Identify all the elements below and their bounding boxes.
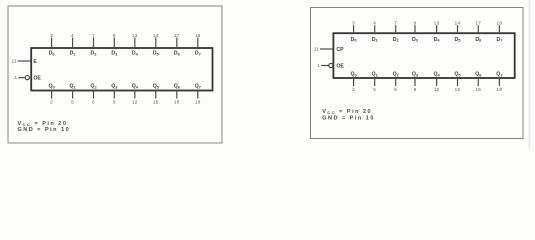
active-low bubble on OE (U2)	[329, 63, 333, 67]
wire: pin 2 stub to Q0 (U2)	[350, 72, 356, 93]
svg-text:Q2: Q2	[393, 72, 400, 78]
wire: pin 3 stub to D0	[49, 33, 55, 57]
svg-text:D1: D1	[372, 37, 379, 43]
svg-text:18: 18	[497, 21, 503, 26]
svg-text:D6: D6	[174, 51, 181, 57]
wire: pin 18 stub to D7	[195, 33, 201, 57]
svg-text:8: 8	[414, 21, 417, 26]
svg-text:5: 5	[71, 99, 74, 104]
svg-text:13: 13	[132, 33, 138, 38]
wire: pin 16 stub to Q6 (U2)	[475, 72, 482, 93]
wire: pin 1 to OE input (U2)	[317, 63, 344, 69]
svg-text:D5: D5	[153, 51, 160, 57]
wire: pin 9 stub to Q3 (U2)	[412, 72, 419, 93]
wire: pin 5 stub to Q1	[69, 83, 76, 104]
wire: pin 6 stub to Q2	[90, 83, 97, 104]
wire: pin 13 stub to D4	[132, 33, 139, 57]
svg-text:Q7: Q7	[195, 83, 201, 89]
svg-text:Q6: Q6	[475, 72, 482, 78]
svg-text:15: 15	[455, 87, 461, 92]
svg-text:Q4: Q4	[132, 83, 139, 89]
svg-text:12: 12	[132, 99, 138, 104]
wire: pin 5 stub to Q1 (U2)	[372, 72, 379, 93]
wire: pin 19 stub to Q7 (U2)	[496, 72, 502, 93]
svg-text:2: 2	[50, 99, 53, 104]
svg-text:D4: D4	[434, 37, 441, 43]
wire: pin 2 stub to Q0	[48, 83, 54, 104]
svg-text:13: 13	[434, 21, 440, 26]
svg-text:Q4: Q4	[433, 72, 440, 78]
svg-text:9: 9	[113, 99, 116, 104]
wire: pin 7 stub to D2	[91, 33, 98, 57]
svg-text:D2: D2	[91, 51, 98, 57]
svg-text:16: 16	[475, 87, 481, 92]
wire: pin 17 stub to D6 (U2)	[475, 21, 482, 43]
svg-text:15: 15	[153, 99, 159, 104]
svg-text:7: 7	[92, 33, 95, 38]
svg-text:D4: D4	[132, 51, 139, 57]
svg-text:7: 7	[394, 21, 397, 26]
svg-text:Q1: Q1	[372, 72, 379, 78]
svg-text:D0: D0	[351, 37, 357, 43]
svg-text:8: 8	[113, 33, 116, 38]
wire: pin 8 stub to D3	[111, 33, 118, 57]
wire: pin 14 stub to D5 (U2)	[455, 21, 462, 43]
svg-text:11: 11	[12, 59, 18, 64]
wire: pin 19 stub to Q7	[195, 83, 201, 104]
wire: pin 12 stub to Q4 (U2)	[433, 72, 440, 93]
svg-text:CP: CP	[336, 47, 344, 53]
wire: pin 12 stub to Q4	[132, 83, 139, 104]
svg-text:Q0: Q0	[48, 83, 54, 89]
svg-text:19: 19	[497, 87, 503, 92]
svg-text:Q0: Q0	[350, 72, 356, 78]
wire: pin 18 stub to D7 (U2)	[496, 21, 502, 43]
wire: pin 3 stub to D0 (U2)	[351, 21, 357, 43]
svg-text:GND = Pin 10: GND = Pin 10	[322, 116, 375, 122]
svg-text:6: 6	[92, 99, 95, 104]
svg-text:3: 3	[352, 21, 355, 26]
svg-text:9: 9	[414, 87, 417, 92]
svg-text:5: 5	[373, 87, 376, 92]
IC U2 body (octal D flip-flop, '374 pinout)	[333, 33, 514, 78]
ground note GND = Pin 10 (U2)	[322, 116, 375, 122]
svg-text:GND = Pin 10: GND = Pin 10	[18, 127, 71, 133]
svg-text:11: 11	[314, 47, 320, 52]
svg-text:D1: D1	[70, 51, 77, 57]
wire: pin 7 stub to D2 (U2)	[393, 21, 400, 43]
svg-text:OE: OE	[336, 64, 344, 70]
wire: pin 6 stub to Q2 (U2)	[393, 72, 400, 93]
svg-text:Q2: Q2	[90, 83, 97, 89]
svg-text:17: 17	[475, 21, 481, 26]
ground note GND = Pin 10 (U1)	[18, 127, 71, 133]
wire: pin 13 stub to D4 (U2)	[434, 21, 441, 43]
svg-text:D3: D3	[412, 37, 419, 43]
wire: pin 15 stub to Q5 (U2)	[454, 72, 461, 93]
svg-text:Q3: Q3	[412, 72, 419, 78]
svg-text:E: E	[33, 59, 37, 65]
svg-text:14: 14	[455, 21, 461, 26]
IC U1 body (octal transparent latch, '373 pinout)	[31, 48, 212, 91]
svg-text:12: 12	[434, 87, 440, 92]
svg-text:Q5: Q5	[454, 72, 461, 78]
svg-text:6: 6	[394, 87, 397, 92]
power note VCC = Pin 20 (U2)	[322, 109, 372, 115]
svg-text:18: 18	[195, 33, 201, 38]
wire: pin 11 to E input	[12, 59, 38, 65]
wire: pin 9 stub to Q3	[111, 83, 118, 104]
svg-text:VCC = Pin 20: VCC = Pin 20	[18, 121, 68, 127]
wire: pin 15 stub to Q5	[153, 83, 160, 104]
svg-text:OE: OE	[33, 76, 41, 82]
svg-text:Q6: Q6	[174, 83, 181, 89]
svg-text:D7: D7	[195, 51, 201, 57]
svg-text:17: 17	[174, 33, 180, 38]
svg-text:D0: D0	[49, 51, 55, 57]
wire: pin 16 stub to Q6	[174, 83, 181, 104]
svg-text:1: 1	[317, 63, 320, 68]
svg-text:19: 19	[195, 99, 201, 104]
svg-text:D7: D7	[496, 37, 502, 43]
svg-text:1: 1	[15, 75, 18, 80]
svg-text:D5: D5	[455, 37, 462, 43]
svg-text:D2: D2	[393, 37, 400, 43]
svg-text:Q5: Q5	[153, 83, 160, 89]
svg-text:Q7: Q7	[496, 72, 502, 78]
svg-text:D3: D3	[111, 51, 118, 57]
wire: pin 1 to OE input	[15, 75, 42, 81]
svg-text:Q3: Q3	[111, 83, 118, 89]
wire: pin 4 stub to D1	[70, 33, 77, 57]
svg-text:4: 4	[71, 33, 74, 38]
wire: pin 14 stub to D5	[153, 33, 160, 57]
svg-text:D6: D6	[475, 37, 482, 43]
wire: pin 17 stub to D6	[174, 33, 181, 57]
wire: pin 4 stub to D1 (U2)	[372, 21, 379, 43]
power note VCC = Pin 20 (U1)	[18, 121, 68, 127]
svg-text:VCC = Pin 20: VCC = Pin 20	[322, 109, 372, 115]
active-low bubble on OE	[25, 76, 29, 80]
svg-text:4: 4	[373, 21, 376, 26]
svg-text:3: 3	[50, 33, 53, 38]
svg-text:2: 2	[352, 87, 355, 92]
svg-text:14: 14	[153, 33, 159, 38]
wire: pin 8 stub to D3 (U2)	[412, 21, 419, 43]
wire: pin 11 to CP input (U2)	[314, 47, 344, 53]
svg-text:16: 16	[174, 99, 180, 104]
svg-text:Q1: Q1	[69, 83, 76, 89]
